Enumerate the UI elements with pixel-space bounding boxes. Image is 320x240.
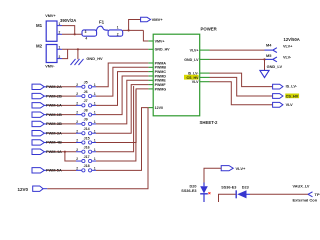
svg-text:1: 1 (94, 120, 96, 124)
svg-text:VLV+: VLV+ (190, 49, 199, 53)
svg-text:VLV+: VLV+ (236, 166, 246, 171)
svg-text:PWM-1A: PWM-1A (46, 103, 62, 108)
connector M5 (265, 53, 277, 62)
port VLV (273, 102, 294, 107)
svg-text:SHEET-2: SHEET-2 (200, 120, 219, 125)
port PWM-3B (32, 121, 47, 126)
svg-text:M4: M4 (266, 43, 272, 48)
svg-text:2: 2 (76, 120, 78, 124)
wire M2 pin2 up (62, 49, 68, 58)
power port VLV+ (bottom) (221, 166, 246, 171)
sheet entry VLV (192, 80, 210, 84)
port PWM-1A (32, 103, 47, 108)
svg-text:1: 1 (94, 83, 96, 87)
svg-text:12V0: 12V0 (155, 106, 163, 110)
svg-text:1: 1 (94, 129, 96, 133)
svg-text:1: 1 (94, 101, 96, 105)
svg-text:PWMG: PWMG (155, 87, 167, 91)
sheet entry IS_LV- (188, 72, 210, 76)
connector M1 (36, 14, 62, 41)
svg-text:VAUX_LV: VAUX_LV (293, 184, 310, 188)
connector M2 (36, 44, 62, 69)
wire J15 output (96, 89, 148, 143)
connector M4 (265, 43, 277, 53)
sheet entry 12V0 (148, 106, 163, 110)
svg-text:J14: J14 (84, 127, 90, 131)
wire VLV+ to D20 (204, 168, 221, 183)
port PWM-1B (32, 112, 47, 117)
sheet entry VMV+ (148, 39, 164, 43)
svg-text:M2: M2 (36, 44, 43, 49)
svg-text:M1: M1 (36, 23, 43, 28)
svg-text:POWER: POWER (201, 27, 218, 32)
svg-text:J16: J16 (84, 146, 90, 150)
wire fuse output (123, 29, 144, 31)
wire PWM-3A to jumper (47, 132, 76, 134)
wire VLV (210, 82, 273, 105)
svg-text:1: 1 (94, 166, 96, 170)
svg-text:TP: TP (315, 192, 320, 197)
jumper J6 (76, 90, 96, 98)
port PWM-4A (32, 149, 47, 154)
wire PWM-5A to jumper (47, 169, 76, 171)
svg-text:PWM-1B: PWM-1B (46, 112, 62, 117)
diode D23 (221, 185, 250, 198)
svg-text:VMV-: VMV- (45, 65, 55, 69)
svg-text:GND_HV: GND_HV (86, 56, 103, 61)
wire IS_LV- (210, 73, 273, 87)
sheet entry PWMB (148, 66, 166, 70)
svg-text:J15: J15 (84, 136, 90, 140)
wire J6 output (96, 67, 148, 96)
svg-text:1: 1 (94, 92, 96, 96)
sheet entry PWMF (148, 83, 166, 87)
svg-text:J8: J8 (84, 108, 88, 112)
svg-text:PWM-2B: PWM-2B (46, 93, 62, 98)
svg-text:VLV: VLV (286, 103, 294, 107)
wire D23 to connector (250, 193, 308, 195)
svg-text:J6: J6 (84, 90, 88, 94)
jumper J18 (76, 164, 96, 172)
junction GND_LV (263, 58, 265, 60)
wire PWM-1B to jumper (47, 114, 76, 116)
svg-text:1: 1 (94, 139, 96, 143)
sheet entry PWMG (148, 87, 166, 91)
svg-text:GND_HV: GND_HV (155, 48, 171, 52)
sheet entry PWMA (148, 61, 166, 65)
svg-text:J17: J17 (84, 155, 90, 159)
svg-text:VMV+: VMV+ (45, 14, 56, 18)
svg-text:J7: J7 (84, 99, 88, 103)
fuse F1 (82, 20, 123, 41)
power port 12V0 (18, 186, 48, 192)
port PWM-2A (32, 84, 47, 89)
power port VMV+ (top) (141, 17, 164, 22)
svg-text:PWM-5A: PWM-5A (46, 168, 62, 173)
jumper J16 (76, 146, 96, 154)
svg-text:VLV-: VLV- (283, 55, 292, 59)
jumper J14 (76, 127, 96, 135)
sheet entry CS_HV (184, 75, 210, 80)
svg-text:PWM-4A: PWM-4A (46, 149, 62, 154)
wire J16 output (96, 86, 134, 152)
svg-text:2: 2 (76, 111, 78, 115)
jumper J17 (76, 155, 96, 163)
svg-text:1: 1 (94, 148, 96, 152)
svg-text:3: 3 (85, 30, 87, 34)
svg-text:390V/2A: 390V/2A (60, 18, 76, 23)
svg-text:SS36-E3: SS36-E3 (221, 185, 236, 189)
wire VLV+ to M4 (210, 49, 265, 51)
wire GND_LV to M5 (210, 58, 265, 60)
svg-text:2: 2 (76, 139, 78, 143)
port CS_HV (highlighted) (273, 94, 299, 99)
sheet entry GND_HV (148, 48, 170, 52)
svg-text:F1: F1 (99, 20, 105, 25)
svg-text:12V/50A: 12V/50A (284, 37, 300, 42)
svg-text:VMV+: VMV+ (155, 39, 165, 43)
svg-text:CS_HV: CS_HV (286, 94, 299, 98)
svg-text:4: 4 (85, 36, 87, 40)
port PWM-5A (32, 168, 47, 173)
wire J14 output (96, 85, 148, 134)
svg-text:PWMC: PWMC (155, 70, 167, 74)
jumper J8 (76, 108, 96, 116)
wire J8 output (96, 76, 148, 115)
port PWM-4B (32, 140, 47, 145)
wire to ground (264, 59, 266, 70)
svg-text:1: 1 (94, 111, 96, 115)
wire M1 pin1 to pin2 net (62, 26, 75, 35)
svg-text:VLV+: VLV+ (283, 44, 293, 48)
svg-text:2: 2 (59, 31, 61, 35)
svg-text:VMV+: VMV+ (152, 17, 164, 22)
jumper J5 (76, 81, 96, 89)
svg-text:PWM-3A: PWM-3A (46, 130, 62, 135)
wire PWM-1A to jumper (47, 104, 76, 106)
svg-text:2: 2 (117, 33, 119, 37)
sheet entry PWMD (148, 74, 166, 78)
jumper J15 (76, 136, 96, 144)
wire J5 output (96, 63, 148, 87)
svg-text:J18: J18 (84, 164, 90, 168)
wire M1 pin2 to fuse (62, 33, 82, 35)
wire 12V0 (47, 108, 148, 189)
svg-text:PWM-3B: PWM-3B (46, 121, 62, 126)
wire J9 output (96, 80, 148, 124)
svg-text:PWM-2A: PWM-2A (46, 84, 62, 89)
wire J7 output (96, 72, 148, 106)
diode D20 (181, 183, 210, 203)
svg-text:12V0: 12V0 (18, 187, 29, 192)
svg-text:J5: J5 (84, 81, 88, 85)
svg-text:GND_LV: GND_LV (184, 58, 199, 62)
svg-text:2: 2 (76, 83, 78, 87)
port PWM-2B (32, 93, 47, 98)
wire CS_HV (210, 77, 273, 96)
svg-text:PWM-4B: PWM-4B (46, 140, 62, 145)
svg-text:1: 1 (59, 46, 61, 50)
svg-text:1: 1 (117, 26, 119, 30)
svg-text:2: 2 (76, 166, 78, 170)
svg-text:J9: J9 (84, 118, 88, 122)
sheet entry PWMC (148, 70, 166, 74)
wire PWM-4A to jumper (47, 151, 76, 153)
svg-text:2: 2 (76, 92, 78, 96)
port IS_LV- (273, 84, 298, 89)
sheet entry VLV+ (190, 49, 210, 53)
wire to D23 cathode (219, 194, 236, 202)
svg-text:2: 2 (59, 55, 61, 59)
sheet symbol U_POWER (153, 34, 200, 116)
wire M2 pin1 GND_HV to sheet (62, 48, 148, 50)
ground GND_HV (hatched) (71, 59, 84, 65)
svg-text:M5: M5 (266, 53, 272, 58)
svg-text:SS36-E3: SS36-E3 (181, 189, 196, 193)
svg-text:External Con: External Con (293, 198, 318, 202)
svg-text:D23: D23 (242, 185, 249, 189)
svg-text:2: 2 (76, 101, 78, 105)
wire PWM-2A to jumper (47, 86, 76, 88)
svg-text:2: 2 (76, 157, 78, 161)
wire VMV+ into sheet (143, 30, 148, 41)
wire J17 output (96, 90, 136, 162)
junction M1 net (74, 33, 76, 35)
svg-text:IS_LV-: IS_LV- (286, 85, 298, 89)
svg-text:2: 2 (76, 129, 78, 133)
wire PWM-3B to jumper (47, 123, 76, 125)
svg-text:D20: D20 (190, 185, 197, 189)
off-sheet connector TP (308, 192, 320, 197)
svg-text:VLV: VLV (192, 80, 199, 84)
sheet entry GND_LV (184, 58, 209, 62)
wire PWM-4A branch to J17 (64, 151, 76, 161)
sheet entry PWME (148, 79, 166, 83)
jumper J9 (76, 118, 96, 126)
wire J18 output (96, 108, 148, 171)
svg-text:1: 1 (94, 157, 96, 161)
jumper J7 (76, 99, 96, 107)
wire PWM-4B to jumper (47, 141, 76, 143)
wire PWM-2B to jumper (47, 95, 76, 97)
wire gnd stub (77, 49, 79, 59)
svg-text:GND_LV: GND_LV (267, 64, 283, 69)
junction fuse output (128, 29, 130, 31)
wire to VMV+ flag (129, 20, 141, 31)
svg-text:2: 2 (76, 148, 78, 152)
port PWM-3A (32, 131, 47, 136)
junction gnd branch (77, 48, 79, 50)
ground GND_LV (triangle) (260, 70, 269, 77)
